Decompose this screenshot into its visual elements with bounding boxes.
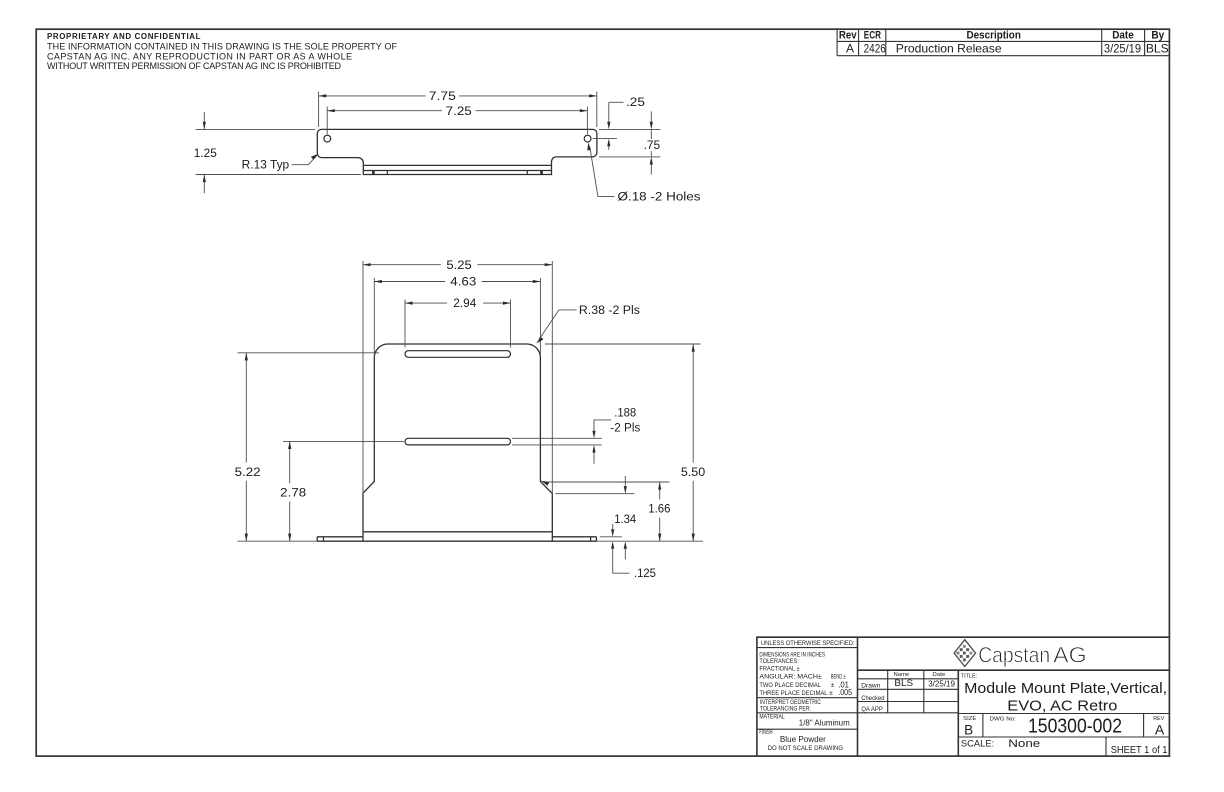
svg-text:Ø.18 -2 Holes: Ø.18 -2 Holes <box>618 191 701 203</box>
svg-text:Drawn: Drawn <box>861 683 881 690</box>
svg-text:1.34: 1.34 <box>614 514 637 526</box>
hole right <box>584 135 591 142</box>
svg-text:MATERIAL: MATERIAL <box>759 714 785 721</box>
svg-text:None: None <box>1008 738 1040 750</box>
svg-text:3/25/19: 3/25/19 <box>1104 42 1141 56</box>
svg-text:AG: AG <box>1053 642 1087 667</box>
svg-text:2.94: 2.94 <box>453 298 477 310</box>
dimension .25 <box>593 97 661 150</box>
svg-text:5.50: 5.50 <box>681 467 705 479</box>
svg-text:Date: Date <box>1112 30 1134 42</box>
svg-text:SHEET 1 of 1: SHEET 1 of 1 <box>1111 745 1168 756</box>
signature table <box>858 670 959 713</box>
lip slot tick left thin <box>386 171 388 175</box>
svg-text:ECR: ECR <box>864 30 881 42</box>
middle slot <box>405 438 511 445</box>
dimension 5.22 <box>235 353 379 541</box>
svg-text:WITHOUT WRITTEN PERMISSION OF: WITHOUT WRITTEN PERMISSION OF CAPSTAN AG… <box>47 61 342 71</box>
svg-text:7.75: 7.75 <box>429 91 456 103</box>
svg-text:ANGULAR: MACH±: ANGULAR: MACH± <box>759 674 822 681</box>
svg-text:TITLE:: TITLE: <box>961 674 978 680</box>
svg-text:.188: .188 <box>614 407 636 419</box>
svg-text:1.66: 1.66 <box>648 504 670 516</box>
svg-text:FINISH: FINISH <box>759 729 772 736</box>
svg-text:A: A <box>846 42 854 56</box>
svg-text:Rev: Rev <box>839 30 858 42</box>
flange tick right <box>590 537 592 541</box>
svg-text:Production Release: Production Release <box>896 42 1002 56</box>
top view outline <box>317 129 597 174</box>
svg-text:.75: .75 <box>644 140 661 152</box>
svg-text:TWO PLACE DECIMAL: TWO PLACE DECIMAL <box>759 682 821 689</box>
svg-text:1/8" Aluminum: 1/8" Aluminum <box>799 718 850 728</box>
dimension .75 <box>599 111 660 174</box>
top view lip line upper <box>364 164 551 166</box>
svg-text:DO NOT SCALE DRAWING: DO NOT SCALE DRAWING <box>768 745 844 752</box>
dimension 7.25 <box>327 106 587 134</box>
dimension 1.25 <box>194 112 361 193</box>
svg-text:PROPRIETARY AND CONFIDENTIAL: PROPRIETARY AND CONFIDENTIAL <box>47 32 201 41</box>
svg-text:FRACTIONAL ±: FRACTIONAL ± <box>759 665 800 672</box>
dimension .188 <box>512 407 641 463</box>
size dwg rev row <box>958 714 1169 738</box>
chamfer extension line <box>555 493 634 495</box>
front view outline <box>363 344 552 532</box>
svg-text:Module Mount Plate,Vertical,: Module Mount Plate,Vertical, <box>964 680 1167 697</box>
title block frame <box>757 637 1170 756</box>
svg-text:4.63: 4.63 <box>450 277 476 289</box>
svg-text:By: By <box>1151 30 1165 42</box>
svg-text:2.78: 2.78 <box>280 488 306 500</box>
leader diameter .18 holes <box>587 142 700 203</box>
svg-text:THE INFORMATION CONTAINED IN T: THE INFORMATION CONTAINED IN THIS DRAWIN… <box>47 41 398 51</box>
title box <box>961 674 1167 715</box>
svg-text:.25: .25 <box>626 97 645 109</box>
svg-text:EVO, AC Retro: EVO, AC Retro <box>1007 698 1117 715</box>
svg-text:Capstan: Capstan <box>978 642 1050 667</box>
svg-text:DWG No:: DWG No: <box>990 717 1017 723</box>
svg-text:Description: Description <box>967 30 1022 42</box>
svg-text:5.25: 5.25 <box>446 260 471 272</box>
svg-text:3/25/19: 3/25/19 <box>928 678 955 688</box>
leader R.38 <box>536 305 640 344</box>
svg-text:R.13 Typ: R.13 Typ <box>242 160 290 172</box>
svg-text:BLS: BLS <box>894 678 913 689</box>
CapstanAG logo <box>954 640 1087 668</box>
svg-text:.125: .125 <box>634 568 656 580</box>
svg-text:TOLERANCES:: TOLERANCES: <box>759 658 799 665</box>
lip slot tick left thick <box>372 171 375 175</box>
lip slot tick right thick <box>540 171 543 175</box>
svg-text:QA APP: QA APP <box>861 706 883 713</box>
svg-text:Date: Date <box>932 672 945 678</box>
svg-text:BLS: BLS <box>1146 42 1169 56</box>
flange tick left <box>323 537 325 541</box>
svg-text:2426: 2426 <box>864 42 886 56</box>
leader R.13 Typ <box>242 154 319 172</box>
dimension 5.25 <box>363 260 552 494</box>
front view bend line <box>363 531 552 533</box>
dimension 2.94 <box>405 298 511 347</box>
dimension .125 <box>600 524 656 580</box>
hole left <box>324 135 331 142</box>
svg-text:SIZE: SIZE <box>963 716 976 722</box>
top view lip line lower <box>364 170 551 172</box>
front view bottom flange <box>317 532 596 541</box>
svg-text:B: B <box>964 723 973 738</box>
upper slot <box>405 351 511 358</box>
svg-text:±: ± <box>829 690 833 697</box>
svg-text:R.38 -2 Pls: R.38 -2 Pls <box>579 305 640 317</box>
dimension 5.50 <box>545 344 705 541</box>
lip slot tick right thin <box>526 171 528 175</box>
svg-text:.005: .005 <box>838 687 852 697</box>
svg-text:UNLESS OTHERWISE SPECIFIED:: UNLESS OTHERWISE SPECIFIED: <box>761 640 855 647</box>
dimension 7.75 <box>319 91 597 127</box>
tolerance texts <box>759 640 854 752</box>
revision table <box>837 29 1169 56</box>
dimension 1.66 <box>541 481 671 542</box>
dimension 1.34 <box>614 476 637 560</box>
svg-text:Checked: Checked <box>861 695 885 702</box>
svg-text:A: A <box>1155 722 1165 738</box>
svg-text:150300-002: 150300-002 <box>1028 716 1122 738</box>
dimension 4.63 <box>374 277 540 357</box>
svg-text:TOLERANCING PER:: TOLERANCING PER: <box>760 706 811 713</box>
dimension 2.78 <box>280 441 404 541</box>
svg-text:1.25: 1.25 <box>194 148 217 160</box>
svg-text:±: ± <box>831 682 835 689</box>
svg-text:THREE PLACE DECIMAL: THREE PLACE DECIMAL <box>759 690 828 697</box>
svg-text:SCALE:: SCALE: <box>961 739 994 749</box>
tolerance box lines <box>757 648 858 730</box>
svg-text:7.25: 7.25 <box>446 106 472 118</box>
proprietary note <box>47 32 398 71</box>
svg-text:5.22: 5.22 <box>235 467 261 479</box>
svg-text:CAPSTAN AG INC. ANY REPRODUCTI: CAPSTAN AG INC. ANY REPRODUCTION IN PART… <box>47 51 352 61</box>
svg-text:-2 Pls: -2 Pls <box>610 423 640 435</box>
svg-text:Blue Powder: Blue Powder <box>780 734 826 744</box>
scale sheet row <box>961 737 1168 756</box>
